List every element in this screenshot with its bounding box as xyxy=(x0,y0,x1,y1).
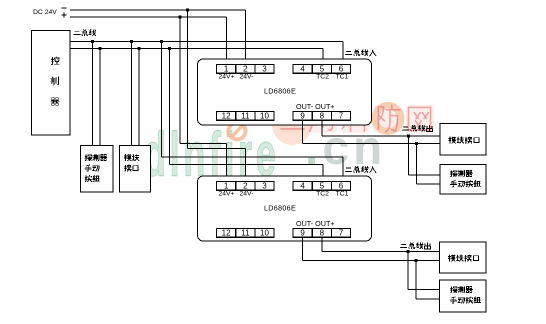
U2 pin 5 terminal xyxy=(312,181,331,190)
U1 label 24V+ 24V- xyxy=(218,74,253,81)
svg-text:LD6806E: LD6806E xyxy=(264,87,296,96)
DC 24V supply label xyxy=(33,9,57,16)
U1 label TC2 TC1 xyxy=(316,74,349,81)
wire: bus A drop to left module-interface box xyxy=(131,42,133,146)
U2 pin 11 terminal xyxy=(236,228,255,237)
wire: bus line A (upper) controller to module1 pin6 TC1 xyxy=(70,42,343,65)
left module interface box xyxy=(120,146,151,193)
svg-text:24V-: 24V- xyxy=(240,191,254,198)
controller box (kong-zhi-qi) xyxy=(32,31,71,136)
wire: U1 pin8 OUT- to right module-interface box xyxy=(322,120,440,136)
U2 pin 3 terminal xyxy=(255,181,274,190)
junction bus B to module2 branch xyxy=(168,47,171,50)
wire: bus B drop to left module-interface box xyxy=(138,49,140,146)
U2 pin 9 terminal xyxy=(293,228,312,237)
svg-text:DC 24V: DC 24V xyxy=(33,9,57,16)
U1 pin 8 terminal xyxy=(312,111,331,120)
svg-text:9: 9 xyxy=(300,228,305,237)
U1 pin 12 terminal xyxy=(217,111,236,120)
label: er-zong-xian (two-wire bus) xyxy=(74,30,96,36)
svg-text:OUT- OUT+: OUT- OUT+ xyxy=(296,219,335,228)
wire: minus rail branch to module2 pin2 xyxy=(188,10,246,182)
U2 pin 4 terminal xyxy=(293,181,312,190)
junction U1 out B xyxy=(415,142,418,145)
U1 pin 10 terminal xyxy=(255,111,274,120)
wire: bus line B (lower) controller to module1 pin5 TC2 xyxy=(70,49,323,65)
svg-text:3: 3 xyxy=(262,64,267,73)
U1 pin 7 terminal xyxy=(331,111,350,120)
junction on minus rail xyxy=(186,8,189,11)
wire: bus B drop to left detector box xyxy=(99,49,101,146)
svg-text:OUT- OUT+: OUT- OUT+ xyxy=(296,102,335,111)
U1 pin 11 terminal xyxy=(236,111,255,120)
svg-text:1: 1 xyxy=(224,64,229,73)
label: bus output (er-zong-xian-chu) for U2 xyxy=(401,243,431,249)
right detector manual-button box 2 xyxy=(440,280,487,312)
svg-text:7: 7 xyxy=(339,111,344,120)
label: bus input (er-zong-xian-ru) for U1 xyxy=(346,50,376,56)
U1 pin 3 terminal xyxy=(255,64,274,73)
svg-text:2: 2 xyxy=(243,64,248,73)
U2 label TC2 TC1 xyxy=(316,191,349,198)
svg-text:11: 11 xyxy=(241,111,250,120)
junction bus B to module-interface branch xyxy=(137,47,140,50)
junction U2 out A xyxy=(406,250,409,253)
wire: U2 out A drop to detector box 2 xyxy=(408,252,440,290)
svg-text:6: 6 xyxy=(339,181,344,190)
wire: U1 pin9 OUT+ to right module-interface box xyxy=(303,120,441,143)
U1 pin 5 terminal xyxy=(312,64,331,73)
U2 pin 12 terminal xyxy=(217,228,236,237)
wire: bus A branch to module2 pin6 TC1 xyxy=(162,42,344,182)
svg-text:TC2: TC2 xyxy=(316,74,329,81)
svg-text:24V+: 24V+ xyxy=(218,191,234,198)
U2 pin 1 terminal xyxy=(217,181,236,190)
wire: DC24V minus rail to module1 pin2 xyxy=(70,10,246,65)
svg-text:5: 5 xyxy=(320,64,325,73)
DC supply minus terminal xyxy=(62,7,67,9)
junction bus A to module-interface branch xyxy=(130,40,133,43)
svg-text:10: 10 xyxy=(260,111,269,120)
wire: plus rail branch to module2 pin1 xyxy=(180,17,227,182)
svg-text:TC1: TC1 xyxy=(336,74,349,81)
svg-text:7: 7 xyxy=(339,228,344,237)
U2 pin 7 terminal xyxy=(331,228,350,237)
U1 pin 6 terminal xyxy=(331,64,350,73)
svg-text:4: 4 xyxy=(300,64,305,73)
junction U1 out A xyxy=(407,134,410,137)
U1 pin 9 terminal xyxy=(293,111,312,120)
label: bus output (er-zong-xian-chu) for U1 xyxy=(403,125,433,131)
U1 pin 1 terminal xyxy=(217,64,236,73)
wire: bus B branch to module2 pin5 TC2 xyxy=(170,49,324,182)
junction bus B to detector branch xyxy=(98,47,101,50)
junction bus A to module2 branch xyxy=(160,40,163,43)
svg-text:12: 12 xyxy=(222,111,231,120)
wire: U1 out B drop to detector box xyxy=(417,144,441,185)
svg-text:6: 6 xyxy=(339,64,344,73)
U2 pin 6 terminal xyxy=(331,181,350,190)
right detector manual-button box 1 xyxy=(440,165,486,195)
repeater module U2 LD6806E body xyxy=(198,176,372,241)
svg-text:9: 9 xyxy=(300,111,305,120)
svg-text:TC2: TC2 xyxy=(316,191,329,198)
U2 pin 8 terminal xyxy=(312,228,331,237)
wire: DC24V plus rail to module1 pin1 xyxy=(70,17,227,65)
repeater module U1 LD6806E body xyxy=(198,59,372,125)
svg-text:8: 8 xyxy=(320,228,325,237)
U2 pin 10 terminal xyxy=(255,228,274,237)
DC supply plus terminal xyxy=(62,13,67,18)
svg-text:5: 5 xyxy=(320,181,325,190)
svg-text:1: 1 xyxy=(224,181,229,190)
U1 label OUT- OUT+ xyxy=(296,102,335,111)
junction bus A to detector branch xyxy=(91,40,94,43)
U2 label 24V+ 24V- xyxy=(218,191,253,198)
svg-text:LD6806E: LD6806E xyxy=(264,204,296,213)
svg-text:11: 11 xyxy=(241,228,250,237)
junction U2 out B xyxy=(414,259,417,262)
svg-text:24V-: 24V- xyxy=(240,74,254,81)
U2 pin 2 terminal xyxy=(236,181,255,190)
svg-text:10: 10 xyxy=(260,228,269,237)
svg-text:3: 3 xyxy=(262,181,267,190)
svg-text:TC1: TC1 xyxy=(336,191,349,198)
label: bus input (er-zong-xian-ru) for U2 xyxy=(346,166,376,172)
wire: U2 pin9 OUT+ to right module-interface box 2 xyxy=(303,237,440,260)
svg-text:2: 2 xyxy=(243,181,248,190)
wire: U2 pin8 OUT- to right module-interface box 2 xyxy=(322,237,440,251)
svg-text:4: 4 xyxy=(300,181,305,190)
svg-text:24V+: 24V+ xyxy=(218,74,234,81)
wire: U1 out A drop to detector box xyxy=(409,136,441,175)
svg-text:12: 12 xyxy=(222,228,231,237)
U2 label OUT- OUT+ xyxy=(296,219,335,228)
svg-text:8: 8 xyxy=(320,111,325,120)
U1 pin 2 terminal xyxy=(236,64,255,73)
U1 pin 4 terminal xyxy=(293,64,312,73)
wire: bus A drop to left detector box xyxy=(92,42,94,146)
right module interface box 2 xyxy=(440,242,487,273)
wire: U2 out B drop to detector box 2 xyxy=(416,261,440,300)
junction on plus rail xyxy=(178,15,181,18)
right module interface box 1 xyxy=(440,124,486,156)
left detector / manual button box xyxy=(81,146,114,193)
